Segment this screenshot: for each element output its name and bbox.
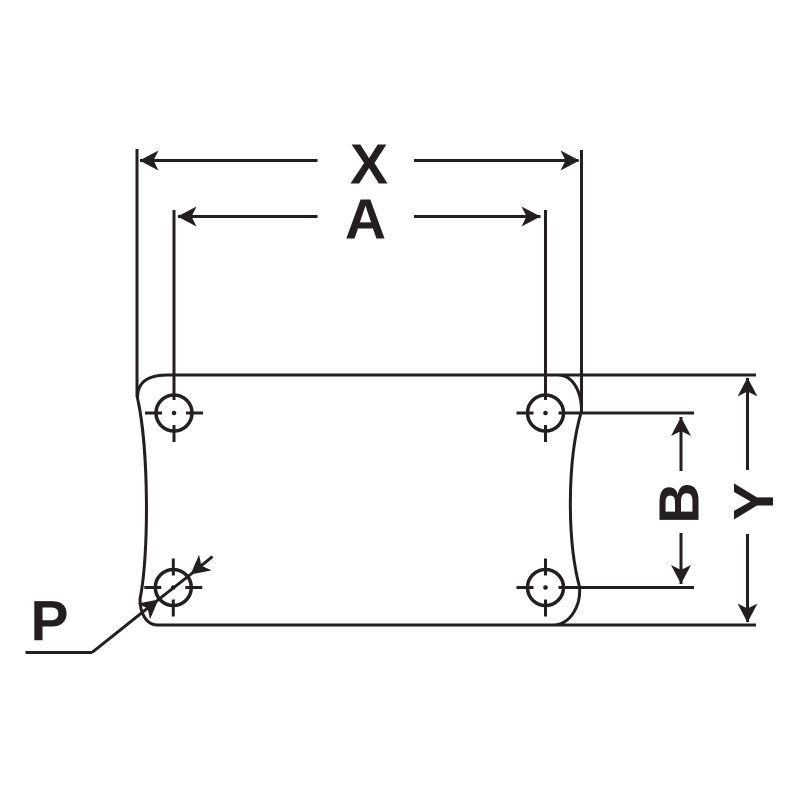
extension line A right [544, 210, 547, 400]
label P [30, 589, 68, 653]
extension line X left [136, 149, 139, 397]
label A [345, 188, 386, 252]
svg-text:Y: Y [722, 482, 786, 520]
arrowhead Y up [738, 378, 758, 397]
crosshair top-left hole [145, 413, 203, 442]
svg-text:B: B [648, 482, 712, 523]
svg-text:A: A [345, 188, 386, 252]
arrowhead A left [178, 207, 197, 227]
center dot top-right hole [543, 411, 548, 416]
arrowhead B down [671, 565, 691, 584]
arrowhead Y down [738, 604, 758, 623]
crosshair top-right hole [517, 413, 546, 442]
hole top-right [528, 395, 564, 431]
leader line P [92, 600, 159, 653]
extension line Y bottom [550, 624, 756, 627]
arrowhead P lower [137, 600, 158, 620]
extension line B bottom [559, 586, 695, 589]
arrowhead B up [671, 417, 691, 436]
extension line Y top [556, 374, 756, 377]
label X [350, 133, 388, 197]
dimension line X [140, 159, 579, 162]
dimension line B [680, 417, 683, 584]
hole bottom-right [528, 570, 564, 606]
arrowhead X left [140, 151, 159, 171]
label B [648, 482, 712, 523]
label Y [722, 482, 786, 520]
extension line X right [580, 150, 583, 411]
leader tail P upper [191, 557, 213, 575]
hole top-left [156, 395, 192, 431]
arrowhead P upper [191, 555, 212, 575]
center dot bottom-left hole [171, 585, 176, 590]
extension line B top [559, 412, 695, 415]
crosshair bottom-left hole [144, 559, 202, 617]
hole bottom-left [155, 570, 191, 606]
arrowhead A right [522, 207, 541, 227]
dimension line A [178, 215, 541, 218]
svg-text:P: P [30, 589, 68, 653]
plate outline [138, 375, 582, 625]
crosshair bottom-right hole [517, 559, 546, 617]
extension line A left [173, 210, 176, 400]
arrowhead X right [561, 151, 580, 171]
dimension line Y [746, 378, 749, 622]
diameter chord P [159, 575, 191, 600]
center dot top-left hole [172, 411, 177, 416]
center dot bottom-right hole [543, 585, 548, 590]
leader underline P [26, 651, 93, 654]
